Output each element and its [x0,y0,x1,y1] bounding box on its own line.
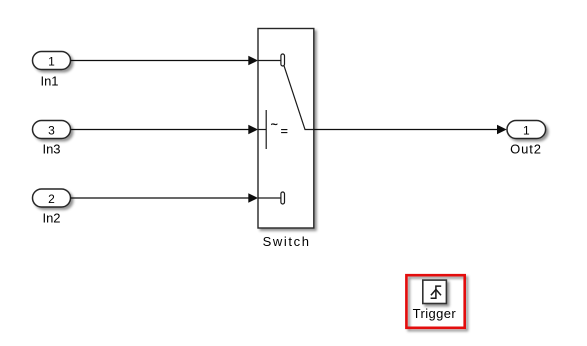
outport Out2 [507,121,546,139]
Trigger icon arrow left wing [431,290,436,296]
svg-text:1: 1 [523,123,530,137]
wire Switch to Out2 [314,129,499,131]
inport In2 [33,189,71,207]
Switch contact bottom [281,192,285,204]
svg-text:In2: In2 [42,211,60,226]
Trigger icon rising step [431,286,442,298]
Switch internal wire input 1 stub [258,60,281,62]
arrowhead Switch pin 2 [248,125,258,135]
svg-text:2: 2 [48,192,55,206]
Trigger icon arrow right wing [436,290,441,296]
svg-text:1: 1 [48,54,55,68]
inport In1 [33,52,71,70]
Switch internal wire input 3 stub [258,197,281,199]
arrowhead Switch pin 1 [248,56,258,66]
arrowhead Switch pin 3 [248,193,258,203]
svg-text:=: = [281,124,288,138]
Switch internal wire input 2 stub [258,129,266,131]
block Switch body [258,29,314,229]
svg-text:In3: In3 [42,142,60,157]
Switch threshold bar [265,110,267,149]
Switch contact top [281,54,285,66]
Switch wiper diagonal [284,65,314,129]
svg-text:In1: In1 [40,74,58,89]
svg-text:Switch: Switch [263,234,311,249]
svg-text:~: ~ [271,118,278,132]
wire In2 to Switch input 3 [71,197,250,199]
selection highlight red box [406,275,464,328]
inport In3 [33,121,71,139]
svg-text:3: 3 [48,123,55,137]
svg-text:Trigger: Trigger [413,306,457,321]
svg-text:Out2: Out2 [510,142,542,157]
wire In3 to Switch input 2 [71,129,250,131]
wire In1 to Switch input 1 [71,60,250,62]
arrowhead Out2 pin [497,125,507,135]
block Trigger body [423,280,447,303]
